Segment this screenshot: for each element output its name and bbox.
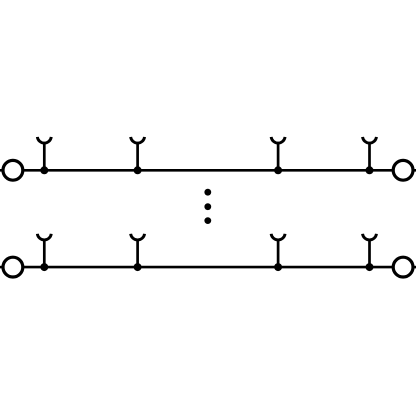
wire: stem <box>136 239 139 267</box>
terminal circle bottom-right <box>393 257 413 277</box>
clamp contact 1 (top rail) <box>37 137 51 174</box>
clamp contact 4 (top rail) <box>363 137 377 174</box>
wire: top bus rail <box>24 169 393 172</box>
wire: stem <box>277 143 280 171</box>
wire: top bus left edge stub <box>0 169 3 172</box>
wire: stem <box>136 143 139 171</box>
clamp contact 3 (top rail) <box>271 137 285 174</box>
junction dot <box>40 166 48 174</box>
wire: bottom bus left edge stub <box>0 266 3 269</box>
fork clamp symbol <box>363 234 377 240</box>
fork clamp symbol <box>131 234 145 240</box>
wire: stem <box>43 239 46 267</box>
terminal circle top-left <box>3 160 23 180</box>
junction dot <box>366 263 374 271</box>
terminal circle top-right <box>393 160 413 180</box>
clamp contact 1 (bottom rail) <box>37 234 51 271</box>
clamp contact 2 (bottom rail) <box>131 234 145 271</box>
wire: stem <box>277 239 280 267</box>
junction dot <box>366 166 374 174</box>
wire: bottom bus right edge stub <box>413 266 416 269</box>
clamp contact 3 (bottom rail) <box>271 234 285 271</box>
junction dot <box>134 263 142 271</box>
junction dot <box>40 263 48 271</box>
wire: stem <box>368 239 371 267</box>
terminal circle bottom-left <box>3 257 23 277</box>
fork clamp symbol <box>131 137 145 143</box>
junction dot <box>274 166 282 174</box>
wire: top bus right edge stub <box>413 169 416 172</box>
clamp contact 4 (bottom rail) <box>363 234 377 271</box>
wire: stem <box>368 143 371 171</box>
fork clamp symbol <box>363 137 377 143</box>
fork clamp symbol <box>37 137 51 143</box>
junction dot <box>274 263 282 271</box>
fork clamp symbol <box>271 137 285 143</box>
fork clamp symbol <box>271 234 285 240</box>
fork clamp symbol <box>37 234 51 240</box>
wire: stem <box>43 143 46 171</box>
wire: bottom bus rail <box>24 266 393 269</box>
ellipsis continuation dots <box>204 189 211 224</box>
clamp contact 2 (top rail) <box>131 137 145 174</box>
junction dot <box>134 166 142 174</box>
